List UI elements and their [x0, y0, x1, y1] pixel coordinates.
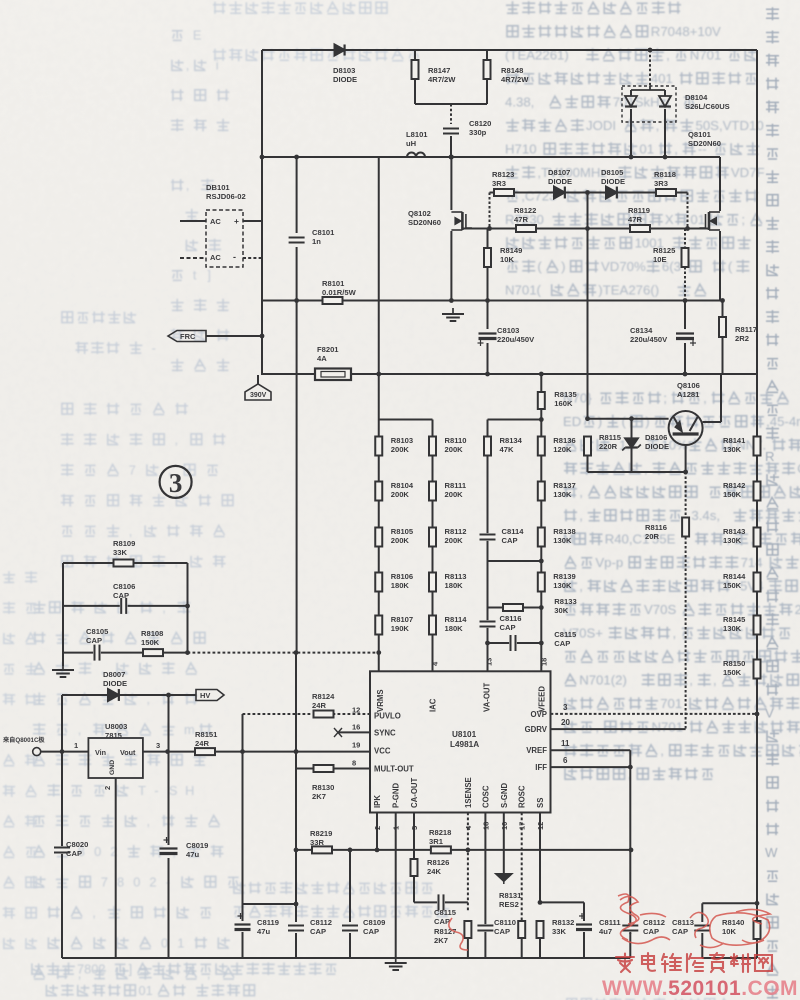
wire: C8105/R8108 line [63, 652, 188, 654]
resistor R8150 150K [754, 660, 761, 679]
resistor R8119 47R [630, 225, 650, 232]
wire: upper row right drop [687, 193, 689, 229]
wire: IPK row [296, 849, 631, 851]
diode diode D8103 [335, 44, 345, 55]
wire: S-GND leg [503, 813, 505, 875]
resistor R8111 200K [429, 482, 436, 501]
capacitor capacitor C8103 [479, 332, 497, 340]
watermark www.520101.com [602, 977, 798, 1000]
resistor R8131 RES2 [518, 921, 525, 938]
wire: col3-col4 rung [488, 560, 542, 562]
wire: loop right vertical [187, 563, 189, 653]
resistor R8141 130K [754, 437, 761, 456]
resistor R8123 3R3 [494, 189, 514, 196]
wire: C8113/R8140 box [702, 902, 757, 904]
wire: AC input stubs [180, 220, 206, 222]
ground (filter) [62, 664, 64, 670]
wire: D8007 junction down [168, 695, 170, 752]
resistor R8126 24K [411, 859, 418, 876]
capacitor capacitor C8134 [676, 332, 694, 340]
capacitor capacitor C8113 [694, 924, 710, 932]
wire: terminal lead [41, 751, 89, 753]
fuse F8201 [315, 369, 351, 381]
capacitor capacitor C8115 [509, 635, 517, 651]
watermark 家电维修资料网 (vector strokes) [614, 950, 800, 980]
wire: boost output line [262, 300, 723, 302]
wire: col2 vertical [432, 420, 434, 672]
resistor R8148 4R7/2W [484, 60, 491, 79]
wire: emitter rung [588, 471, 686, 473]
wire: C8019 branch [168, 752, 170, 845]
resistor R8114 180K [429, 616, 436, 635]
wire: OVP line pin3 [551, 713, 758, 715]
wire: D8104 stem [649, 50, 651, 86]
ground (main) [395, 957, 397, 963]
wire: col1 sense divider vertical [378, 157, 380, 653]
resistor R8116 20R [682, 518, 689, 537]
bridge rectifier DB101 [206, 210, 243, 267]
wire: VREF/IFF vertical down [629, 767, 631, 934]
resistor R8151 24R [195, 748, 215, 755]
wire: bridge - output [243, 257, 262, 259]
resistor R8137 130K [538, 482, 545, 501]
wire: IPK pin drop [376, 813, 378, 850]
wire: left input vertical [261, 50, 263, 375]
wire: FRC lead [206, 335, 262, 337]
wire: C8120 to rail [450, 136, 452, 157]
wire: gate row upper (diodes) [490, 192, 688, 194]
zener diode D8106 [625, 438, 638, 447]
capacitor C8112 [295, 904, 297, 922]
resistor R8112 200K [429, 528, 436, 547]
resistor R8104 200K [375, 482, 382, 501]
wire: gate row lower [462, 228, 709, 230]
wire: C8120 stem [450, 104, 452, 124]
wire: IFF line pin6 [551, 766, 631, 768]
wire: fuse return line [262, 373, 757, 375]
MOSFET Q8101 [708, 212, 711, 230]
figure number 3 [160, 466, 192, 498]
wire: 390V stem [257, 375, 259, 384]
wire: second rail (inductor line) [262, 156, 720, 158]
wire: R8117 drop [722, 301, 724, 318]
wire: GDRV line pin20 [551, 728, 686, 730]
wire: C8101 drop [296, 157, 298, 233]
capacitor capacitor C8110 [477, 924, 493, 932]
wire: Q8101 source [719, 231, 721, 301]
wire: ladder bar col1-col2 [379, 419, 433, 421]
wire: SYNC stub with X [338, 731, 370, 733]
resistor R8132 33K [537, 921, 544, 938]
resistor R8218 3R1 [431, 846, 451, 853]
wire: mid sense vertical (D8107/D8105 node down) [587, 193, 589, 419]
resistor R8107 190K [375, 616, 382, 635]
wire: Q8102 source [450, 231, 452, 301]
wire: ROSC leg [521, 813, 523, 921]
capacitor capacitor C8109 [342, 924, 358, 932]
wire: Q8106 collector [703, 421, 721, 423]
wire: C8134 drop [684, 301, 686, 330]
net flag 390V [245, 384, 271, 400]
wire: supply input vertical [61, 695, 63, 958]
wire: R8115 node rung [588, 418, 669, 420]
resistor R8125 10E [682, 248, 689, 267]
wire: D8104 outputs [630, 90, 632, 96]
resistor R8109 33K [114, 560, 134, 567]
resistor R8142 150K [754, 482, 761, 501]
wire: SS rung to C8111 [540, 901, 584, 903]
wire: bridge + output [243, 220, 262, 222]
inductor L8101 [407, 153, 425, 158]
resistor R8110 200K [429, 437, 436, 456]
wire: col4 vertical [540, 374, 542, 671]
diode pack D8104 [622, 86, 676, 122]
wire: C8103 drop [487, 301, 489, 330]
wire: SS leg [539, 813, 541, 903]
wire: VREF line pin11 [551, 749, 631, 751]
wire: 7815 output line to VCC pin [143, 751, 370, 753]
wire: R8133 rung [488, 607, 542, 609]
junction dots [449, 155, 454, 160]
wire: VRMS pin stub [378, 653, 380, 672]
wire: R8126 to C8115b rung [413, 876, 415, 902]
wire: R8147/R8148 drops [414, 50, 416, 60]
net flag HV [196, 690, 224, 701]
op-amp U8101 L4981A PFC controller [370, 671, 551, 812]
wire: Q8106 emitter to R8116 to gate-drive [685, 445, 687, 472]
wire: R8125 column [684, 229, 686, 249]
resistor R8108 150K [143, 649, 163, 656]
wire: loop left vertical [62, 563, 64, 666]
wire: C8115 rung [488, 642, 542, 644]
diode diode D8007 [108, 689, 119, 701]
resistor R8135 160K [538, 392, 545, 409]
wire: bottom ground rail [62, 957, 630, 959]
wire: snubber bar [414, 79, 416, 104]
wire: R8149 column [487, 229, 489, 249]
wire: MULT-OUT resistor line [296, 768, 370, 770]
wire: C8109 branch [349, 850, 351, 922]
wire: upper row left drop [489, 193, 491, 229]
wire: U8003 ground leg [115, 778, 117, 958]
resistor R8140 10K [754, 921, 761, 939]
resistor R8106 180K [375, 573, 382, 592]
wire: Q8101 drain corner [719, 157, 721, 211]
ground (Q8102 source) [452, 308, 454, 314]
resistor R8145 130K [754, 616, 761, 635]
capacitor C8111 [583, 902, 585, 921]
resistor R8130 2K7 [314, 765, 334, 772]
transistor Q8106 [669, 411, 703, 445]
resistor R8117 2R2 [719, 317, 726, 337]
capacitor capacitor C8116 [480, 620, 496, 628]
wire: right border vertical [756, 50, 758, 958]
MOSFET Q8102 [461, 212, 464, 230]
capacitor capacitor C8106 [120, 598, 128, 614]
capacitor capacitor C8019 [160, 847, 178, 855]
resistor R8118 3R3 [656, 189, 676, 196]
wire: col3 vertical [487, 420, 489, 672]
capacitor capacitor C8115b [437, 894, 445, 910]
capacitor capacitor C8105 [93, 645, 101, 661]
resistor R8144 150K [754, 573, 761, 592]
wire: dotted run to VRMS [188, 652, 379, 654]
wire: R8115 bottom [587, 456, 589, 473]
wire: COSC leg [484, 813, 486, 959]
resistor R8122 47R [516, 225, 536, 232]
resistor R8139 130K [538, 573, 545, 592]
wire: CA-OUT leg [413, 813, 415, 859]
ground (signal) [496, 874, 511, 881]
resistor R8143 130K [754, 528, 761, 547]
wire: VCC branch lower [243, 903, 297, 905]
capacitor capacitor C8101 [289, 236, 305, 244]
capacitor capacitor C8114 [480, 533, 496, 541]
diode diode D8107 [554, 187, 565, 199]
resistor R8101 0.01R/5W [323, 297, 343, 304]
resistor R8124 24R [314, 711, 334, 718]
wire: VCC rail vertical down [242, 752, 244, 904]
resistor R8138 130K [538, 528, 545, 547]
resistor R8149 10K [484, 248, 491, 267]
wire: C8106 line [63, 605, 188, 607]
capacitor C8020 [54, 846, 70, 854]
capacitor C8119 [242, 904, 244, 921]
capacitor C8112b [622, 924, 638, 932]
resistor R8133 30K [503, 604, 523, 611]
resistor R8219 33R [312, 846, 332, 853]
resistor R8103 200K [375, 437, 382, 456]
resistor R8115 220R [584, 437, 591, 456]
wire: R8109 loop top [63, 562, 188, 564]
resistor R8134 47K [484, 437, 491, 456]
voltage regulator U8003 7815 [88, 738, 142, 778]
wire: P-GND leg [395, 813, 397, 959]
wire: mid vertical (left of IC) [296, 302, 298, 653]
net flag FRC [168, 331, 206, 342]
wire: zener stem [631, 419, 633, 438]
wire: D8007 line [62, 694, 196, 696]
wire: top rail +HV boost node [262, 49, 757, 51]
resistor R8147 4R7/2W [412, 60, 419, 79]
input terminal from Q8001 [33, 748, 41, 756]
capacitor capacitor C8120 [443, 127, 459, 135]
resistor R8136 120K [538, 437, 545, 456]
wire: ladder bar col3-col4 [488, 419, 542, 421]
resistor R8113 180K [429, 573, 436, 592]
wire: 1SENSE leg [467, 813, 469, 913]
resistor R8105 200K [375, 528, 382, 547]
resistor R8127 2K7 [464, 921, 471, 938]
diode diode D8105 [606, 187, 617, 199]
wire: Q8102 drain drop [450, 157, 452, 210]
wire: PUVLO feed corner [243, 713, 371, 715]
